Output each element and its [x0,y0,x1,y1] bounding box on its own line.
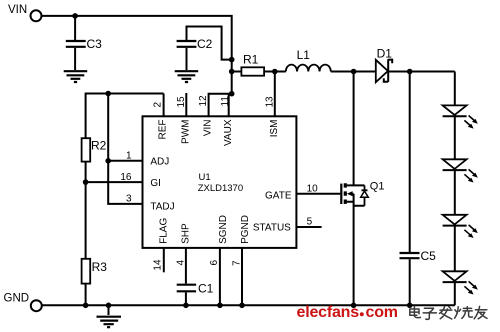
wire: ISM pin 13 drop [274,72,276,117]
pin 2 REF wire [163,94,165,117]
svg-text:SHP: SHP [180,223,191,244]
node: C2 tap on VIN drop [229,57,235,63]
wire: ADJ/TADJ vertical line [108,94,142,204]
svg-text:ISM: ISM [269,120,280,138]
terminal GND [4,293,42,312]
node: C5 to rail [407,303,413,309]
node: pins 11/12 supply junction [229,91,235,97]
node: pin 7 to rail [239,303,245,309]
svg-text:C3: C3 [87,37,103,51]
svg-text:GATE: GATE [265,190,292,201]
svg-text:ZXLD1370: ZXLD1370 [198,183,243,194]
svg-text:ADJ: ADJ [150,156,169,167]
pin 7 PGND wire [241,248,243,305]
svg-text:R3: R3 [92,260,108,274]
resistor R2 [82,138,107,161]
node: VIN/C3 junction [72,13,78,19]
svg-text:com: com [366,304,398,321]
inductor L1 [286,48,331,72]
svg-text:13: 13 [264,96,275,108]
svg-text:11: 11 [220,96,231,107]
pin 6 SGND wire [219,248,221,305]
node: GI tap [83,179,89,185]
watermark: Chinese characters 电子发烧友 [410,306,487,319]
svg-text:VIN: VIN [203,120,214,137]
svg-text:FLAG: FLAG [159,218,170,244]
ground (C3) [64,71,87,82]
diode D1 (schottky) [376,47,392,83]
svg-text:REF: REF [158,120,169,140]
wire: R2 bottom to R3 top [85,162,87,259]
node: R1 left tap [229,69,235,75]
capacitor C2 [177,27,232,71]
svg-text:1: 1 [126,150,132,161]
LED D5 [443,271,478,294]
pin 15 PWM stub [185,93,187,116]
svg-text:6: 6 [209,260,220,266]
pin 14 FLAG stub [163,248,165,272]
svg-text:elecfans: elecfans [297,304,360,321]
svg-text:12: 12 [198,95,209,107]
svg-text:C5: C5 [421,249,437,263]
svg-text:14: 14 [153,259,164,271]
node: R3 to rail [83,303,89,309]
pin 12 VIN wire [209,94,232,117]
svg-text:PGND: PGND [240,215,251,244]
wire: D1 to LED rail [388,71,455,73]
node: ADJ tap [105,158,111,164]
ground (bottom rail) [97,305,122,327]
svg-text:U1: U1 [199,172,211,183]
svg-text:R1: R1 [243,53,259,67]
svg-text:PWM: PWM [180,120,191,144]
wire: R3 bottom to ground rail [85,284,87,306]
capacitor C1 [177,281,214,305]
svg-text:VAUX: VAUX [223,119,234,146]
node: pin 6 to rail [217,303,223,309]
pin 11 VAUX wire [228,94,230,117]
node: ground tap on rail [106,303,112,309]
node: L1/Q1 drain junction [351,69,357,75]
svg-text:STATUS: STATUS [253,222,291,233]
wire: VIN top rail and drop to pins 11/12 [41,16,232,94]
wire: LED string column [454,72,456,306]
svg-text:C2: C2 [197,37,213,51]
svg-text:L1: L1 [297,48,311,62]
node: R1/ISM junction [272,69,278,75]
pin 16 GI wire [86,181,143,183]
terminal VIN [8,4,42,21]
resistor R3 [82,259,108,284]
svg-text:GND: GND [4,293,30,305]
capacitor C3 [66,16,102,70]
transistor Q1 (N-MOSFET) [341,72,384,306]
svg-text:TADJ: TADJ [150,201,174,212]
wire: bottom ground rail [42,304,455,306]
svg-text:C1: C1 [198,281,214,295]
pin 1 ADJ wire [108,160,142,162]
svg-text:7: 7 [231,260,242,266]
node: C1 to rail [183,303,189,309]
LED D2 [443,105,478,128]
pin 5 STATUS stub [296,226,321,228]
svg-text:3: 3 [126,193,132,204]
ground (C2) [175,71,199,82]
wire: REF rail to R2 [86,94,164,139]
LED D4 [443,215,478,238]
pin 10 GATE wire [296,193,340,195]
watermark: elecfans.com logo [297,304,398,321]
node: C5 tap [407,69,413,75]
svg-text:SGND: SGND [218,215,229,244]
LED D3 [443,159,478,182]
svg-text:5: 5 [307,216,313,227]
svg-text:4: 4 [175,260,186,266]
node: REF rail / ADJ line junction [105,91,111,97]
svg-text:10: 10 [307,183,319,194]
IC U1 ZXLD1370 body [143,116,297,248]
svg-text:VIN: VIN [8,4,27,16]
svg-text:GI: GI [150,178,161,189]
wire: L1 to D1 [331,71,376,73]
resistor R1 [232,53,286,76]
svg-text:R2: R2 [91,138,107,152]
node: Q1 source to rail [351,303,357,309]
svg-text:15: 15 [176,96,187,108]
svg-text:Q1: Q1 [370,181,385,193]
capacitor C5 [400,72,437,306]
svg-text:2: 2 [152,102,163,108]
pin 4 SHP wire + capacitor C1 [185,248,187,284]
svg-text:D1: D1 [377,47,393,61]
